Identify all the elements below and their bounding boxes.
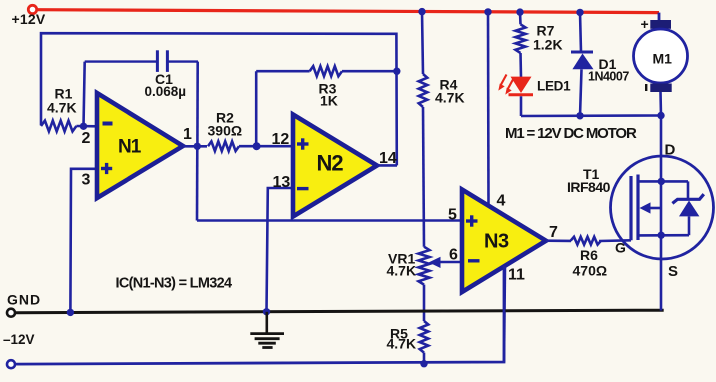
svg-text:6: 6 <box>449 247 458 264</box>
svg-text:12: 12 <box>272 131 290 148</box>
svg-text:+12V: +12V <box>12 11 46 27</box>
svg-text:M1: M1 <box>653 51 673 67</box>
svg-text:IRF840: IRF840 <box>567 179 611 195</box>
svg-text:2: 2 <box>82 130 91 147</box>
svg-text:4: 4 <box>497 193 506 210</box>
svg-text:S: S <box>668 263 678 280</box>
svg-text:11: 11 <box>508 267 525 284</box>
svg-text:470Ω: 470Ω <box>573 263 608 279</box>
svg-text:1K: 1K <box>320 93 338 109</box>
svg-text:7: 7 <box>549 224 558 241</box>
svg-text:N1: N1 <box>118 137 142 158</box>
svg-text:390Ω: 390Ω <box>208 123 243 139</box>
svg-text:13: 13 <box>273 174 291 191</box>
svg-text:D: D <box>665 142 676 159</box>
svg-text:4.7K: 4.7K <box>435 90 465 106</box>
svg-text:3: 3 <box>82 172 91 189</box>
svg-text:M1 = 12V DC MOTOR: M1 = 12V DC MOTOR <box>505 125 637 142</box>
svg-text:1: 1 <box>183 126 192 143</box>
svg-text:–12V: –12V <box>3 332 35 347</box>
svg-text:1N4007: 1N4007 <box>588 70 629 84</box>
svg-text:4.7K: 4.7K <box>47 100 77 116</box>
svg-text:N3: N3 <box>484 231 509 253</box>
svg-text:IC(N1-N3) = LM324: IC(N1-N3) = LM324 <box>116 275 232 291</box>
svg-text:1.2K: 1.2K <box>533 37 563 53</box>
svg-text:4.7K: 4.7K <box>387 263 417 279</box>
svg-text:GND: GND <box>7 292 41 308</box>
svg-text:+: + <box>641 16 649 32</box>
svg-text:0.068µ: 0.068µ <box>145 84 187 99</box>
svg-text:4.7K: 4.7K <box>387 336 417 352</box>
svg-text:LED1: LED1 <box>537 79 571 94</box>
svg-text:5: 5 <box>448 207 457 224</box>
svg-text:R6: R6 <box>580 247 598 263</box>
svg-text:N2: N2 <box>317 151 344 176</box>
